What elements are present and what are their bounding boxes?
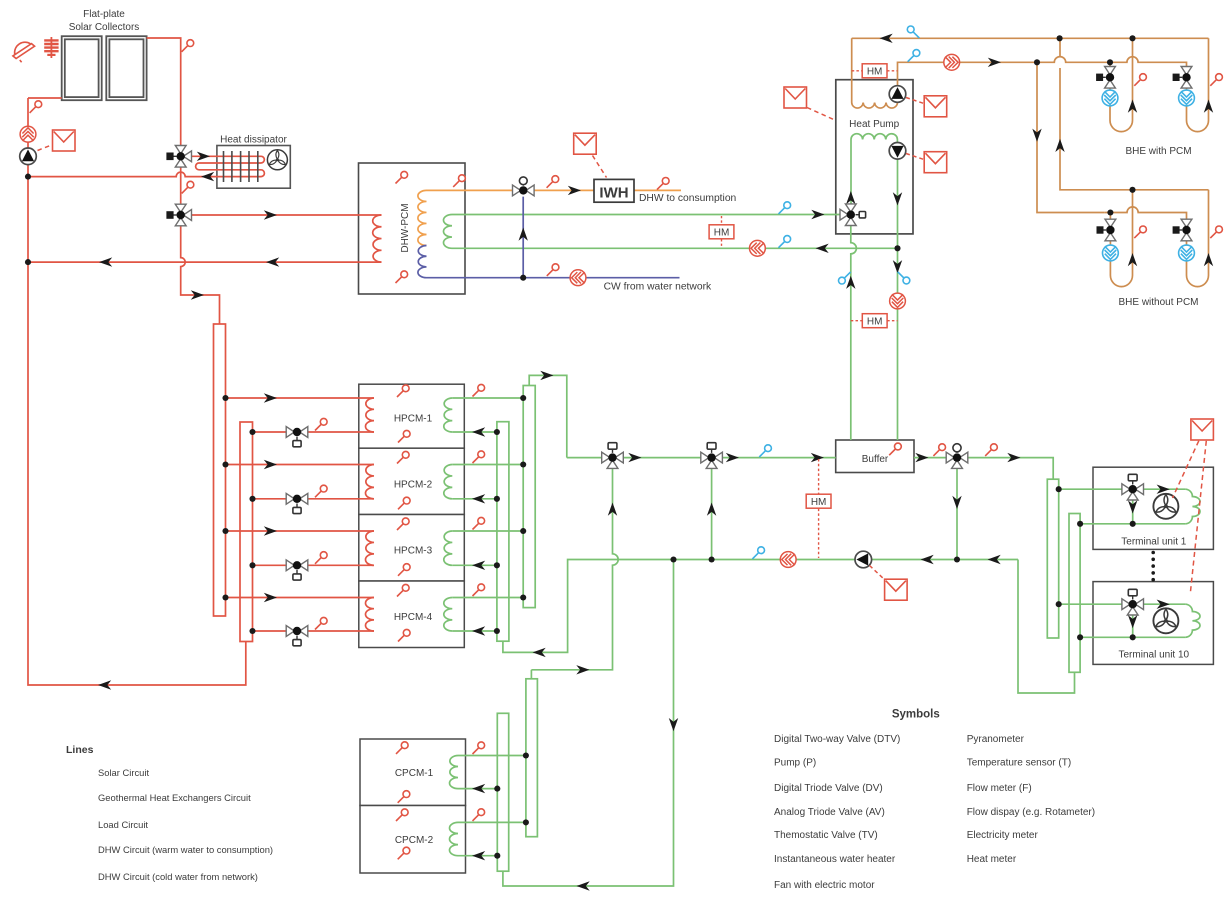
electricity meter envelope circulation pump (885, 579, 908, 600)
dashed link envelope to fan unit 1 (1173, 441, 1199, 498)
wire HPCM-4 green out row (452, 597, 523, 599)
junction nodes red return manifold (249, 429, 255, 634)
heat meter HM distribution (806, 494, 831, 508)
HPCM-3 red coil (365, 531, 374, 565)
svg-text:DHW Circuit (warm water to con: DHW Circuit (warm water to consumption) (98, 844, 273, 855)
arrow HPCM-2 supply (264, 460, 277, 469)
pyranometer symbol (13, 42, 35, 62)
svg-text:Digital Two-way Valve (DTV): Digital Two-way Valve (DTV) (774, 734, 900, 745)
wire BHE supply drop to without-PCM group (1037, 62, 1105, 212)
wire load return main line (503, 560, 1018, 653)
wire HPCM-4 red valve row (253, 630, 375, 632)
wire solar collector top outlet to down pipe (147, 38, 181, 150)
arrow HP valve top port up (846, 191, 855, 204)
arrow CPCM drop down (669, 718, 678, 731)
solar collector panel 2 (106, 36, 146, 100)
terminal return manifold rectangle (1069, 514, 1080, 673)
wire BHE-PCM branch1 valve to rotameter to U and riser (1110, 38, 1133, 131)
svg-text:BHE with PCM: BHE with PCM (1125, 146, 1191, 157)
arrow terminal unit 10 valve down (1128, 615, 1137, 628)
wire terminal unit 10 return row (1080, 636, 1185, 638)
arrow HPCM collect out top (540, 371, 553, 380)
junction node valve2 riser (709, 556, 715, 562)
junction nodes HPCM collect manifold (520, 395, 526, 601)
temperature sensor T on CW line (547, 264, 559, 276)
arrow terminal unit 1 supply (1157, 485, 1170, 494)
junction nodes red supply manifold (222, 395, 228, 601)
arrow before buffer (811, 453, 824, 462)
fan with electric motor terminal unit 1 (1153, 494, 1178, 519)
arrow DHW-PCM red return left outer (99, 257, 112, 266)
wire HPCM-1 green out row (452, 397, 523, 399)
wire terminal unit 10 valve bottom (1132, 611, 1134, 638)
temperature sensor T after buffer (933, 444, 945, 456)
wire terminal unit 10 supply row (1059, 603, 1125, 605)
svg-text:DHW Circuit (cold water from n: DHW Circuit (cold water from network) (98, 871, 258, 882)
red supply manifold rectangle (214, 324, 226, 616)
arrow HPCM-1 supply (264, 393, 277, 402)
wire BHE-PCM branch2 rotameter to U and riser (1187, 38, 1209, 131)
arrow valve AV riser down (952, 496, 961, 509)
arrow return main left outer (988, 555, 1001, 564)
solar collector panel 1 (62, 36, 102, 100)
svg-text:Load Circuit: Load Circuit (98, 819, 148, 830)
CPCM-2 green coil (450, 822, 459, 855)
wire CW from water network line (427, 277, 680, 279)
DHW-PCM green coil (443, 215, 452, 249)
svg-text:DHW to consumption: DHW to consumption (639, 193, 737, 204)
arrow load supply into HP valve (811, 210, 824, 219)
arrow after buffer (915, 453, 928, 462)
svg-text:Flow dispay (e.g. Rotameter): Flow dispay (e.g. Rotameter) (967, 807, 1095, 818)
valve DTV HPCM-2 (286, 493, 308, 513)
wire HPCM-1 red supply row (226, 397, 375, 399)
wire CPCM-2 green out row (458, 821, 526, 823)
HPCM-2 green coil (444, 465, 453, 499)
wire without-PCM supply bump over riser (1105, 207, 1187, 221)
temperature sensor T DHW line after valve (547, 176, 559, 188)
wire DHW line coil to IWH (427, 189, 595, 191)
terminal supply manifold rectangle (1047, 479, 1058, 638)
arrow HPCM-3 supply (264, 526, 277, 535)
arrow DHW line to IWH (568, 186, 581, 195)
temperature probe comb symbol (44, 37, 58, 58)
heat pump electricity meter envelope left (784, 87, 807, 108)
heat pump orange coil (852, 103, 898, 109)
wire supply row valves to buffer (567, 457, 836, 459)
load return flow meter F (780, 552, 796, 568)
HPCM-1 red coil (366, 398, 375, 432)
load circulation pump P (855, 551, 872, 568)
svg-text:Buffer: Buffer (862, 454, 889, 465)
blue temperature sensor load return line (779, 236, 791, 248)
wire HPCM-2 green return row (452, 498, 497, 500)
wire BHE-noPCM branch2 rotameter U riser (1187, 190, 1209, 287)
green CPCM collect manifold rectangle (526, 679, 538, 837)
arrows CPCM green return rows (472, 784, 485, 861)
arrow return main left inner (921, 555, 934, 564)
svg-text:Pyranometer: Pyranometer (967, 734, 1025, 745)
wire DHW-PCM red coil return to solar riser (28, 261, 382, 263)
svg-text:Digital Triode Valve (DV): Digital Triode Valve (DV) (774, 783, 883, 794)
HPCM-3 tank box (359, 515, 465, 582)
valve AV after buffer 3-way analog (946, 444, 968, 469)
arrow terminal unit 10 supply (1157, 600, 1170, 609)
arrow geothermal return into HP (880, 34, 893, 43)
dashed links HM to load lines (721, 216, 723, 247)
wire CPCM-1 green out row (458, 755, 526, 757)
wire terminal unit 1 valve bottom (1132, 496, 1134, 524)
arrow manifold feed (191, 290, 204, 299)
arrow HP outflow down below box (893, 260, 902, 273)
svg-text:Pump (P): Pump (P) (774, 757, 816, 768)
wire green coil to HP load pump (896, 140, 898, 143)
valve DTV BHE-noPCM branch2 (1173, 219, 1192, 241)
arrow buffer to HP up (846, 276, 855, 289)
blue temperature sensor load supply line (779, 202, 791, 214)
green CPCM return manifold rectangle (497, 713, 508, 871)
wire HPCM-2 red supply row (226, 464, 375, 466)
valve DV1 load supply 3-way (602, 443, 624, 469)
blue temperature sensor on supply line (908, 50, 920, 62)
temperature sensor T after valve AV (985, 444, 997, 456)
svg-text:Heat meter: Heat meter (967, 854, 1017, 865)
rotameter flow display BHE-noPCM branch1 (1103, 245, 1119, 261)
arrow BHE-noPCM branch1 return up (1128, 253, 1137, 266)
temperature sensors T on HPCM out rows (473, 384, 485, 596)
arrow DHW-PCM red return left inner (266, 257, 279, 266)
svg-text:DHW-PCM: DHW-PCM (400, 203, 411, 252)
svg-text:Flow meter (F): Flow meter (F) (967, 783, 1032, 794)
wire HPCM-2 red valve row (253, 498, 375, 500)
blue temperature sensor before buffer (759, 445, 771, 457)
junction node CPCM branch (670, 556, 676, 562)
wire geothermal return header (852, 37, 1209, 39)
arrow BHE-noPCM branch2 return up (1204, 253, 1213, 266)
DHW-PCM orange coil (418, 190, 427, 245)
wire HPCM-1 green return row (452, 431, 497, 433)
dashed links HM to supply and return (818, 459, 820, 558)
dashed link load pump to envelope (906, 154, 924, 160)
heat pump green coil (851, 134, 897, 140)
valve TV thermostatic on DHW line (513, 177, 535, 196)
junction nodes terminal manifolds (1056, 486, 1136, 640)
valve DTV HPCM-4 (286, 626, 308, 646)
wire terminal return stem to main return (1018, 560, 1075, 694)
load flow meter F above buffer (890, 293, 906, 309)
svg-text:CPCM-1: CPCM-1 (395, 768, 434, 779)
terminal unit 10 coil (1185, 604, 1200, 637)
svg-text:Temperature sensor (T): Temperature sensor (T) (967, 757, 1071, 768)
arrow terminal unit 1 valve down (1128, 500, 1137, 513)
red return manifold rectangle (240, 422, 253, 642)
svg-text:Themostatic Valve (TV): Themostatic Valve (TV) (774, 830, 878, 841)
heat pump load pump P (889, 143, 906, 160)
wire return riser bump over supply done above, riser to header (1059, 38, 1061, 56)
DHW-PCM tank box (359, 163, 466, 294)
valve DTV BHE-PCM branch2 (1173, 67, 1192, 89)
junction nodes geothermal headers (1034, 35, 1136, 215)
arrow heat dissipator return (201, 172, 214, 181)
wire terminal unit 1 supply row (1059, 488, 1125, 490)
valve DTV BHE-PCM branch1 (1097, 67, 1116, 89)
svg-text:Heat dissipator: Heat dissipator (220, 135, 287, 146)
junction node valve3 riser (954, 556, 960, 562)
wire load supply DHW-PCM to heat pump valve (452, 214, 844, 216)
wire HPCM-1 red valve row (253, 431, 375, 433)
solar electricity meter envelope (53, 130, 76, 151)
CPCM-2 tank box (360, 806, 466, 874)
svg-text:HPCM-4: HPCM-4 (394, 612, 433, 623)
svg-text:Solar Circuit: Solar Circuit (98, 767, 149, 778)
temperature sensor T inside buffer (889, 443, 901, 455)
electricity meter envelope load pump (924, 152, 947, 173)
blue temperature sensor on return main (752, 547, 764, 559)
svg-text:Terminal unit 10: Terminal unit 10 (1119, 650, 1190, 661)
arrow load return towards DHW-PCM (816, 244, 829, 253)
arrows HPCM green return rows (472, 427, 485, 635)
junction node CW riser (520, 275, 526, 281)
valve DV heat pump inlet 3-way (840, 204, 866, 226)
HPCM-1 green coil (444, 398, 452, 432)
arrow return to HPCM distribution manifold (533, 648, 546, 657)
dashed link envelope to IWH (593, 156, 607, 178)
terminal unit 1 coil (1185, 489, 1200, 524)
heat meter HM DHW loop (709, 225, 734, 239)
arrow solar supply to DHW-PCM (264, 210, 277, 219)
heat dissipator fins (224, 151, 258, 182)
solar flow meter F (20, 126, 36, 142)
solar pump P (20, 148, 37, 165)
temperature sensors T inside DHW-PCM (396, 171, 408, 283)
temperature sensor T on solar riser top (30, 101, 42, 113)
wire HPCM-3 green out row (452, 530, 523, 532)
svg-text:Solar Collectors: Solar Collectors (69, 22, 140, 33)
temperature sensor T DHW line inside tank (453, 175, 465, 187)
wire between solar valves DV1 DV2 (180, 162, 182, 209)
dashed links HM to orange pipes (852, 70, 898, 72)
wire CW riser to thermostatic valve (522, 197, 524, 278)
legend Symbols column 2 (967, 734, 1095, 865)
wire BHE-noPCM branch1 valve rotameter U riser (1110, 190, 1132, 287)
green distribution manifold HPCM rectangle (497, 422, 509, 642)
green collect manifold HPCM rectangle (523, 386, 535, 608)
CPCM-1 tank box (360, 739, 466, 806)
arrow CPCM bottom line left (577, 881, 590, 890)
blue temperature sensor buffer right riser (898, 272, 910, 284)
HPCM-4 tank box (359, 581, 465, 648)
arrow geothermal supply out of HP (988, 58, 1001, 67)
temperature sensors T on CPCM out rows (473, 742, 485, 821)
arrow HP outflow down inside box (893, 192, 902, 205)
temperature sensor T on collector outlet (182, 40, 194, 52)
arrow into heat dissipator (197, 152, 210, 161)
wire CPCM-1 green return row (458, 788, 497, 790)
temperature sensors T inside HPCM tanks (397, 385, 410, 642)
HPCM-2 tank box (359, 448, 465, 514)
wire load return heat pump to DHW-PCM (452, 247, 898, 249)
svg-text:BHE without PCM: BHE without PCM (1118, 297, 1198, 308)
HPCM tank labels (394, 414, 433, 624)
title Flat-plate Solar Collectors (69, 9, 140, 33)
fan with electric motor terminal unit 10 (1153, 608, 1178, 633)
arrow BHE supply drop down (1032, 129, 1041, 142)
arrow BHE-PCM branch2 return up (1204, 100, 1213, 113)
heat meter HM heat pump source side (862, 64, 887, 78)
electricity meter envelope IWH (574, 133, 597, 154)
HPCM-1 tank box (359, 384, 465, 448)
arrow BHE-noPCM return up (1055, 139, 1064, 152)
terminal unit 1 box (1093, 467, 1213, 549)
arrow BHE-PCM branch1 return up (1128, 100, 1137, 113)
svg-text:HPCM-3: HPCM-3 (394, 546, 433, 557)
temperature sensor T DHW line after IWH (657, 178, 669, 190)
DHW-PCM navy CW coil (418, 246, 427, 278)
arrow after valve AV (1007, 453, 1020, 462)
wire terminal unit 1 valve to coil (1141, 488, 1185, 490)
arrow HPCM-4 supply (264, 593, 277, 602)
valve DTV HPCM-3 (286, 560, 308, 580)
svg-text:Instantaneous water heater: Instantaneous water heater (774, 854, 896, 865)
svg-text:Electricity meter: Electricity meter (967, 830, 1039, 841)
dashed link pump to envelope (38, 145, 53, 151)
temperature sensor T between solar valves (182, 181, 194, 193)
wire below DV2 with bump over red return then to manifold feed (181, 221, 220, 324)
wire HPCM-4 red supply row (226, 597, 375, 599)
arrow solar bottom return (98, 680, 111, 689)
svg-text:Symbols: Symbols (892, 709, 940, 721)
svg-text:Fan with electric motor: Fan with electric motor (774, 880, 875, 891)
arrow CPCM collect to riser (576, 665, 589, 674)
legend Symbols column 1 (774, 734, 900, 891)
wire solar valve DV1 branch to heat dissipator (187, 155, 217, 157)
wire HP valve top port to green coil (850, 140, 852, 209)
valve DTV HPCM-1 (286, 427, 308, 447)
electricity meter envelope geothermal pump (924, 96, 947, 117)
heat meter HM heat pump load side (862, 314, 887, 328)
wire HPCM-3 green return row (452, 564, 497, 566)
arrow after valve DV2 (726, 453, 739, 462)
terminal unit 10 box (1093, 582, 1213, 665)
DHW-PCM red coil (373, 215, 382, 262)
svg-text:Lines: Lines (66, 744, 94, 756)
svg-text:Heat Pump: Heat Pump (849, 119, 899, 130)
wire CPCM branch drop (503, 560, 674, 887)
junction nodes CPCM manifolds (494, 752, 529, 858)
svg-text:Analog Triode Valve (AV): Analog Triode Valve (AV) (774, 807, 885, 818)
wire DHW line IWH to consumption (634, 189, 681, 191)
junction node solar riser / dissipator return (25, 174, 31, 180)
wire CPCM collect manifold to valve1 riser (530, 670, 532, 679)
valve DV terminal unit 10 (1122, 589, 1144, 615)
wire HP valve bottom port down to buffer left riser with bump (851, 221, 857, 440)
wire HPCM-4 green return row (452, 630, 497, 632)
geothermal flow meter F (944, 54, 960, 70)
temperature sensors T on HPCM valve rows (315, 418, 327, 629)
CPCM tank labels (395, 768, 434, 846)
svg-text:Flat-plate: Flat-plate (83, 9, 125, 20)
valve DV2 solar/DHW 3-way (167, 204, 192, 226)
dashed link pump to envelope (870, 566, 886, 581)
junction node solar riser / red return (25, 259, 31, 265)
dashed link envelope to terminal unit 10 (1191, 441, 1207, 592)
valve DTV BHE-noPCM branch1 (1097, 219, 1116, 241)
wire return header into heat pump orange coil (851, 38, 853, 102)
heat dissipator fan (267, 150, 287, 170)
arrow CW riser up (519, 228, 528, 241)
heat dissipator coil (196, 156, 265, 176)
wire heat dissipator return to solar riser with bump over down pipe (28, 172, 261, 177)
valve DV2 load supply 3-way (701, 443, 723, 469)
wire CPCM-2 green return row (458, 855, 497, 857)
temperature sensors T on BHE risers (1134, 74, 1222, 238)
HPCM-2 red coil (365, 465, 374, 499)
svg-text:HPCM-2: HPCM-2 (394, 480, 433, 491)
heat dissipator box (217, 146, 290, 189)
dotted separator between terminal units (1151, 551, 1155, 582)
svg-text:CPCM-2: CPCM-2 (395, 835, 434, 846)
wire HPCM-2 green out row (452, 464, 523, 466)
wire heat pump orange pump riser to supply line (898, 62, 1021, 86)
svg-text:IWH: IWH (599, 185, 628, 202)
wire HPCM-3 red supply row (226, 530, 375, 532)
rotameter flow display BHE-PCM branch1 (1102, 90, 1118, 106)
svg-text:CW from water network: CW from water network (604, 282, 712, 293)
wire valve2 bottom riser (711, 464, 713, 560)
CW flow meter F (570, 270, 586, 286)
HPCM-4 green coil (444, 598, 453, 631)
CPCM-1 green coil (450, 756, 458, 789)
junction node HP outflow / DHW return (894, 245, 900, 251)
heat pump box (836, 80, 913, 234)
rotameter flow display BHE-noPCM branch2 (1179, 245, 1195, 261)
dashed link geo pump to envelope (906, 98, 924, 104)
wire supply line bump over BHE return riser (1020, 57, 1187, 72)
electricity meter envelope terminal units (1191, 419, 1214, 440)
wire terminal unit 1 return row (1080, 523, 1185, 525)
buffer tank box (836, 440, 914, 473)
wire solar valve DV2 branch to DHW-PCM red coil (187, 214, 382, 216)
wire solar left riser (28, 98, 246, 685)
rotameter flow display BHE-PCM branch2 (1179, 90, 1195, 106)
wire valve1 bottom riser with bump over return (531, 464, 618, 670)
svg-text:Terminal unit 1: Terminal unit 1 (1121, 537, 1186, 548)
arrow valve2 riser up (707, 503, 716, 516)
load DHW return flow meter F (750, 240, 766, 256)
valve DV terminal unit 1 (1122, 474, 1144, 500)
temperature sensors T inside CPCM tanks (396, 742, 410, 859)
dashed links HM to green risers (851, 320, 898, 322)
wire HP load pump down to buffer right riser (897, 159, 899, 440)
blue temperature sensor buffer left riser (839, 272, 851, 284)
wire buffer outlet row to terminal drop (914, 458, 1053, 480)
arrow after valve DV1 (628, 453, 641, 462)
wire HPCM collect manifold to valve1 (529, 375, 567, 457)
blue temperature sensor on return header (907, 26, 919, 38)
wire without-PCM return header (1060, 68, 1209, 190)
IWH instantaneous water heater box (594, 179, 634, 202)
arrow valve1 riser up (608, 503, 617, 516)
wire HPCM-3 red valve row (253, 564, 375, 566)
dashed link envelope to heat pump box (807, 108, 836, 121)
heat pump geothermal pump P (889, 86, 906, 103)
HPCM-3 green coil (444, 531, 453, 565)
junction nodes HPCM distribution manifold (494, 429, 500, 634)
valve DV1 solar/dissipator 3-way (167, 146, 192, 168)
svg-text:HPCM-1: HPCM-1 (394, 414, 433, 425)
HPCM-4 red coil (365, 598, 374, 631)
wire valve3 bottom riser (956, 464, 958, 560)
